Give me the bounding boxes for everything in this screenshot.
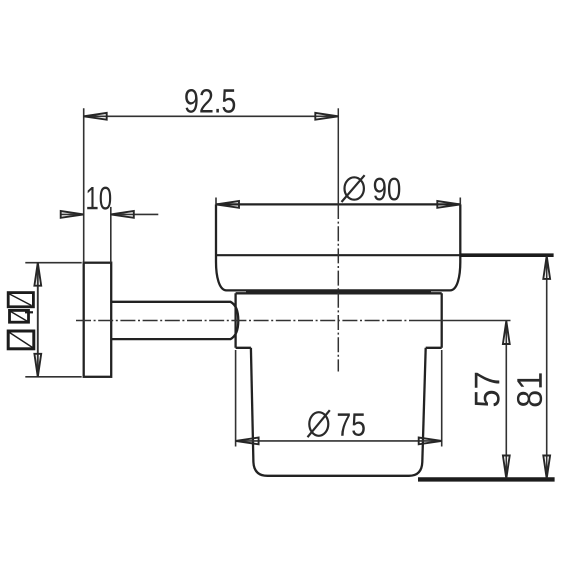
- dimension diameter 90 text: [374, 178, 401, 201]
- left vertical dimension arrows: [34, 263, 41, 377]
- dimension 57 arrows: [503, 321, 510, 479]
- dimension 92.5 arrows: [84, 113, 339, 120]
- dimension diameter 90: extension stubs: [216, 198, 460, 205]
- mounting arm: [111, 302, 238, 339]
- dimension 81 line: [546, 256, 548, 479]
- holder ring collar: [236, 293, 442, 348]
- axis centerline vertical: [337, 108, 339, 371]
- wall plate: [84, 263, 112, 377]
- dimension 92.5 extension lines: [84, 108, 339, 262]
- dimension 57 line: [505, 321, 507, 479]
- dimension 81 arrows: [543, 256, 550, 479]
- dimension diameter 90 arrows: [216, 201, 460, 208]
- left vertical dimension (plate height) lines: [25, 263, 81, 377]
- dimension 10 arrows: [61, 211, 134, 218]
- base thick line: [418, 477, 555, 481]
- hatched box 1 (rotated label glyph): [8, 293, 33, 307]
- dimension diameter 75 symbol: [308, 410, 330, 437]
- glass tumbler: [251, 348, 426, 476]
- top dish: [216, 204, 460, 292]
- dimension 57 text: [475, 373, 500, 407]
- dimension 10 lines: [60, 207, 158, 263]
- dimension diameter 75 lines: [236, 350, 442, 447]
- hatched box 2 with tab (rotated label glyph): [10, 310, 34, 322]
- dimension 92.5 text: [185, 89, 235, 113]
- top reference thick line: [460, 253, 553, 257]
- dimension diameter 75 text: [338, 413, 365, 436]
- hatched box 3 (rotated label glyph): [8, 331, 34, 349]
- dimension diameter 75 arrows: [236, 438, 442, 445]
- dimension 81 text: [517, 373, 542, 406]
- axis centerline horizontal: [76, 320, 511, 322]
- dimension diameter 90 symbol: [342, 175, 365, 202]
- dimension 10 text: [87, 187, 111, 210]
